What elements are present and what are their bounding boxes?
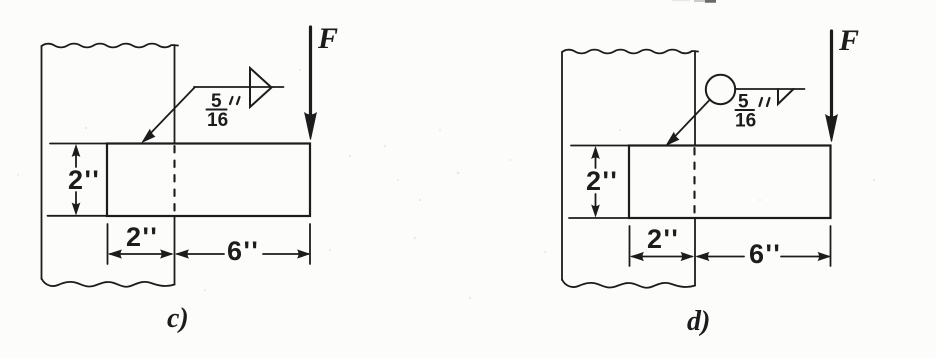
svg-text:6'': 6'' — [749, 239, 781, 269]
page artifact smudge at top edge — [694, 0, 716, 2]
svg-text:5: 5 — [738, 92, 749, 113]
force F arrow shaft — [830, 31, 833, 118]
2in vertical dim lower arrow — [595, 194, 597, 208]
2in horizontal dim line — [110, 253, 172, 255]
2in vertical dim lower arrow — [75, 192, 77, 206]
2in vertical dim upper arrow — [595, 155, 597, 168]
fraction bar of 5/16 — [736, 109, 755, 111]
6in dim extension line — [830, 226, 832, 266]
bar (rectangular plate) — [107, 144, 310, 217]
wall right edge hidden (dashed) behind bar — [693, 148, 695, 218]
svg-text:2'': 2'' — [586, 166, 618, 196]
fillet weld triangle below line — [778, 89, 794, 104]
wall column left edge — [41, 46, 43, 279]
force F arrowhead — [305, 113, 316, 140]
6in dim extension line — [309, 224, 311, 264]
wall wavy bottom edge — [42, 279, 175, 287]
weld leader line (diagonal) — [146, 87, 195, 138]
wall wavy bottom edge — [562, 280, 695, 288]
weld reference line — [194, 86, 284, 88]
weld leader arrowhead — [143, 130, 155, 142]
weld symbol triangle (open, pointing right) — [250, 68, 272, 107]
wall right edge upper segment — [174, 45, 176, 144]
2in horizontal dim line — [632, 256, 692, 258]
wall right edge upper segment — [694, 51, 696, 146]
dim extension line at bar bottom (left) — [569, 217, 629, 219]
wall right edge lower segment — [174, 216, 176, 285]
bar (rectangular plate) — [629, 146, 831, 219]
6in dim line (gap at text) — [177, 253, 224, 255]
svg-text:16: 16 — [207, 110, 228, 131]
svg-text:6'': 6'' — [227, 236, 259, 266]
svg-text:c): c) — [167, 303, 189, 334]
weld reference line — [735, 88, 805, 90]
inch ticks after 5/16 — [760, 98, 770, 106]
svg-text:5: 5 — [211, 91, 222, 112]
svg-text:F: F — [317, 22, 338, 55]
dim extension line at bar bottom (left) — [48, 215, 108, 217]
wall right edge lower segment — [694, 218, 696, 286]
6in dim line (gap at text) — [698, 256, 745, 258]
weld-all-around circle — [706, 75, 735, 104]
svg-text:2'': 2'' — [647, 224, 679, 254]
wall wavy top edge — [42, 44, 179, 48]
weld leader arrowhead — [667, 133, 679, 145]
2in horizontal dim extension line — [107, 224, 109, 264]
weld leader line (diagonal) — [670, 100, 710, 142]
fraction bar of 5/16 — [207, 109, 227, 111]
force F arrowhead — [826, 115, 837, 142]
wall right edge hidden (dashed) behind bar — [173, 146, 175, 216]
svg-text:2'': 2'' — [68, 165, 100, 195]
wall wavy top edge — [562, 50, 698, 54]
svg-text:F: F — [838, 24, 859, 57]
svg-text:16: 16 — [735, 111, 756, 132]
inch ticks after 5/16 — [230, 97, 240, 104]
svg-text:2'': 2'' — [126, 222, 158, 252]
2in vertical dim upper arrow — [75, 153, 77, 167]
svg-text:d): d) — [687, 306, 710, 337]
force F arrow shaft — [309, 27, 312, 116]
2in horizontal dim extension line — [629, 226, 631, 266]
faint scan speckles — [17, 69, 875, 299]
wall column left edge — [561, 52, 563, 280]
dim extension line at bar top (left) — [50, 143, 107, 145]
dim extension line at bar top (left) — [571, 145, 629, 147]
